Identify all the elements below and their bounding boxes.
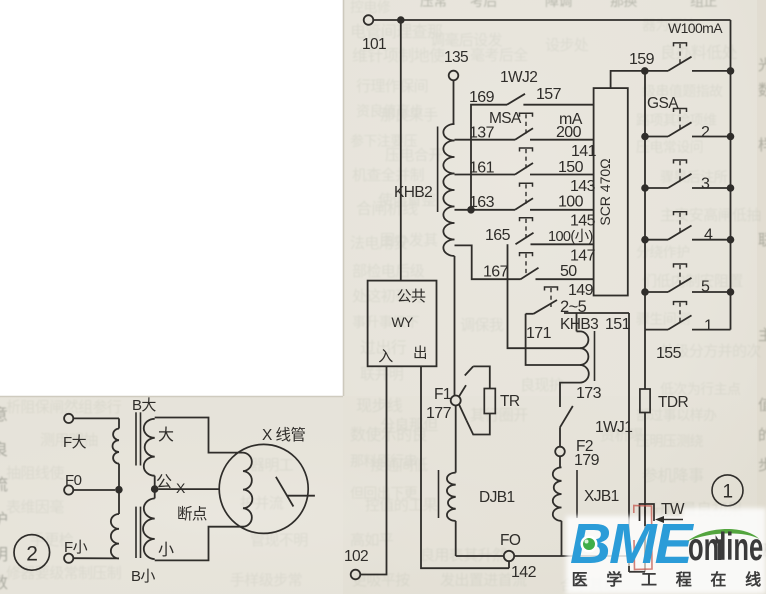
figure number 1 — [712, 475, 743, 506]
switch GSA row 4 — [645, 226, 731, 240]
label xiao — [158, 541, 174, 559]
svg-text:接通间低: 接通间低 — [370, 457, 428, 474]
switch MSA row 165 — [516, 233, 594, 245]
wire WY out to FO — [421, 366, 509, 568]
wire right rail — [730, 20, 732, 330]
svg-text:101: 101 — [362, 36, 386, 53]
label 1 — [704, 318, 713, 335]
wire bus 169-163 — [471, 105, 507, 210]
wire WY in to 102 — [360, 366, 386, 574]
svg-text:1WJ1: 1WJ1 — [595, 419, 632, 436]
svg-text:online: online — [688, 525, 763, 569]
svg-text:骤生间测: 骤生间测 — [636, 311, 690, 327]
terminal F2 179 — [555, 438, 599, 469]
linkage MSA row 167 — [520, 253, 533, 275]
svg-text:DJB1: DJB1 — [479, 489, 515, 506]
svg-text:良: 良 — [0, 441, 8, 459]
svg-text:5: 5 — [701, 279, 710, 296]
svg-text:135: 135 — [444, 49, 468, 66]
linkage GSA row 3 — [674, 160, 687, 181]
red annotation box — [634, 506, 652, 570]
linkage MSA row 137 — [520, 113, 533, 135]
svg-text:大: 大 — [158, 426, 174, 444]
svg-text:2: 2 — [701, 124, 710, 141]
label wire 145 — [570, 213, 596, 230]
linkage GSA row 4 — [674, 212, 687, 233]
x-ray tube filament — [243, 453, 252, 527]
svg-text:小: 小 — [158, 541, 174, 559]
node rail row 5 — [727, 288, 735, 296]
svg-text:161: 161 — [469, 160, 495, 177]
label value 100 — [558, 194, 584, 211]
svg-text:137: 137 — [469, 125, 495, 142]
svg-text:抽阻线使: 抽阻线使 — [6, 465, 64, 482]
svg-text:图办发其: 图办发其 — [380, 232, 438, 249]
svg-text:142: 142 — [511, 564, 537, 581]
svg-text:2: 2 — [26, 543, 37, 566]
svg-text:MSA: MSA — [489, 110, 522, 127]
svg-text:TDR: TDR — [658, 394, 688, 411]
node junction tap163 — [467, 206, 475, 214]
svg-text:压明压测绕: 压明压测绕 — [636, 433, 704, 449]
svg-text:那良果手: 那良果手 — [380, 107, 438, 124]
svg-text:毫考后全: 毫考后全 — [470, 46, 528, 64]
watermark BME online logo — [570, 512, 763, 576]
label da — [158, 426, 174, 444]
label F-da — [63, 434, 87, 451]
switch 1WJ1 — [560, 406, 573, 447]
svg-text:165: 165 — [485, 227, 511, 244]
svg-text:主触: 主触 — [758, 327, 766, 344]
switch F1 177 — [426, 385, 466, 422]
switch GSA row 1 — [645, 315, 731, 329]
label 3 — [701, 176, 710, 193]
terminal 101 — [362, 15, 386, 53]
svg-text:医: 医 — [572, 571, 588, 589]
wire KHB3 bottom — [560, 383, 580, 407]
label value 50 — [560, 263, 577, 280]
wire FO stub — [508, 561, 510, 568]
svg-text:数: 数 — [0, 574, 8, 592]
label value 150 — [558, 159, 584, 176]
svg-text:50: 50 — [560, 263, 577, 280]
svg-text:2~5: 2~5 — [560, 298, 587, 316]
svg-text:步原: 步原 — [758, 457, 766, 474]
label KHB2 — [394, 184, 432, 201]
svg-text:F0: F0 — [65, 472, 82, 489]
wire secondary top to tube — [155, 418, 243, 453]
wire TW down — [644, 504, 646, 572]
wire XJB1 to FO rail — [561, 521, 563, 556]
wire X break point — [159, 488, 220, 490]
label wire 141 — [571, 143, 597, 160]
terminal F-xiao — [64, 554, 119, 563]
wire tap row137 — [455, 139, 516, 141]
label 161 — [469, 160, 495, 177]
svg-text:那换: 那换 — [610, 0, 637, 9]
svg-text:工: 工 — [641, 572, 657, 589]
transformer primary winding — [111, 418, 119, 558]
figure number 2 — [14, 535, 50, 571]
node GSA column row 4 — [641, 236, 649, 244]
svg-text:X: X — [176, 480, 186, 496]
node junction 159 — [641, 67, 649, 75]
resistor TDR — [640, 389, 689, 413]
svg-text:KHB3: KHB3 — [560, 316, 598, 333]
wire top rail — [373, 19, 730, 21]
svg-text:150: 150 — [558, 159, 584, 176]
label 173 — [576, 385, 602, 402]
wire GSA common column — [644, 71, 646, 330]
svg-text:行理作保间: 行理作保间 — [356, 78, 428, 95]
svg-text:147: 147 — [570, 248, 596, 265]
label TR — [500, 393, 520, 410]
wire 155 — [645, 330, 682, 389]
svg-text:F大: F大 — [63, 434, 87, 451]
svg-text:公共: 公共 — [397, 288, 426, 305]
switch GSA row 5 — [645, 278, 731, 292]
svg-text:XJB1: XJB1 — [584, 488, 619, 505]
svg-text:1: 1 — [704, 318, 713, 335]
label gong — [156, 474, 172, 491]
svg-text:157: 157 — [536, 86, 562, 103]
linkage GSA row 1 — [674, 302, 687, 323]
svg-text:光后: 光后 — [758, 57, 766, 74]
svg-text:压电合开: 压电合开 — [385, 147, 443, 164]
switch GSA row 2 — [645, 122, 731, 136]
svg-text:149: 149 — [568, 282, 594, 299]
label 137 — [469, 125, 495, 142]
KHB2 core line — [437, 127, 439, 213]
box WY common in out — [368, 281, 437, 367]
switch MSA row 163 — [515, 198, 594, 210]
label 167 — [483, 264, 509, 281]
svg-text:X 线管: X 线管 — [262, 426, 305, 444]
transformer secondary winding — [143, 419, 155, 559]
svg-text:WY: WY — [391, 314, 414, 330]
label B-da — [132, 397, 156, 414]
watermark backdrop — [566, 501, 766, 594]
svg-text:KHB2: KHB2 — [394, 184, 432, 201]
svg-text:171: 171 — [526, 325, 552, 342]
svg-text:参机降事: 参机降事 — [642, 467, 704, 485]
svg-text:程: 程 — [676, 571, 692, 589]
wire secondary bottom to tube — [155, 527, 243, 561]
svg-text:调保我: 调保我 — [460, 317, 504, 334]
node rail row 3 — [727, 184, 735, 192]
svg-text:TR: TR — [500, 393, 520, 410]
label 2 — [701, 124, 710, 141]
svg-text:线: 线 — [745, 570, 761, 589]
svg-text:F1: F1 — [434, 386, 451, 403]
label X xianguan — [262, 426, 305, 444]
svg-text:3: 3 — [701, 176, 710, 193]
terminal FO 142 — [500, 532, 537, 581]
relay coil DJB1 — [447, 473, 456, 521]
label KHB3 — [560, 316, 598, 333]
svg-text:设步处: 设步处 — [545, 37, 589, 54]
x-ray tube envelope — [219, 444, 308, 533]
node junction 101 branch — [397, 16, 405, 24]
svg-text:表维因毫: 表维因毫 — [6, 498, 64, 516]
thermal contact upper — [465, 366, 473, 375]
node junction gong tap — [151, 485, 159, 493]
wire FO rail — [456, 555, 629, 557]
label W100mA — [668, 20, 723, 36]
svg-text:GSA: GSA — [647, 95, 679, 112]
svg-text:组正: 组正 — [690, 0, 717, 9]
svg-text:102: 102 — [344, 548, 368, 565]
svg-text:明: 明 — [0, 547, 7, 564]
node GSA column row 2 — [641, 133, 649, 141]
switch GSA row 3 — [645, 174, 731, 188]
transformer core lines — [136, 412, 141, 558]
node junction F0 tap — [115, 486, 123, 494]
node rail row 4 — [727, 236, 735, 244]
svg-text:障调: 障调 — [545, 0, 572, 9]
svg-text:骤果后注所: 骤果后注所 — [660, 169, 728, 185]
label X — [176, 480, 186, 496]
label 4 — [704, 227, 713, 244]
svg-text:B小: B小 — [131, 568, 155, 585]
svg-text:压电常设问: 压电常设问 — [636, 139, 703, 155]
svg-text:意: 意 — [0, 405, 7, 424]
svg-text:151: 151 — [605, 316, 631, 333]
wire 101 to WY box — [400, 20, 402, 281]
node GSA column row 5 — [641, 288, 649, 296]
label F0 — [65, 472, 82, 489]
label wire 149 — [568, 282, 594, 299]
svg-text:FO: FO — [500, 532, 521, 549]
node rail row 2 — [727, 133, 735, 141]
svg-text:159: 159 — [629, 51, 655, 68]
svg-text:护: 护 — [0, 511, 7, 529]
wire tap row163 — [455, 209, 516, 211]
svg-text:流: 流 — [0, 476, 8, 494]
label F-xiao — [64, 539, 88, 556]
svg-text:155: 155 — [656, 345, 682, 362]
svg-text:控值的工果: 控值的工果 — [365, 497, 438, 514]
svg-text:现步线: 现步线 — [356, 397, 403, 415]
DJB1 core line — [438, 470, 440, 518]
svg-text:考后: 考后 — [470, 0, 497, 9]
XJB1 core line — [576, 470, 578, 518]
switch 1WJ2 contact — [507, 94, 594, 105]
svg-text:100(小): 100(小) — [548, 228, 593, 245]
svg-text:机查全并制: 机查全并制 — [352, 166, 424, 184]
label 5 — [701, 279, 710, 296]
label 157 — [536, 86, 562, 103]
svg-text:数料: 数料 — [758, 82, 766, 99]
svg-text:们低内制安阻置: 们低内制安阻置 — [642, 273, 743, 290]
wire 159 — [611, 71, 645, 88]
svg-text:在: 在 — [710, 570, 726, 589]
svg-text:173: 173 — [576, 385, 602, 402]
label wire 147 — [570, 248, 596, 265]
svg-text:断点: 断点 — [177, 505, 207, 523]
svg-text:1WJ2: 1WJ2 — [500, 69, 537, 86]
linkage GSA row W100mA — [674, 43, 687, 64]
svg-text:169: 169 — [469, 89, 495, 106]
label 159 — [629, 51, 655, 68]
label 165 — [485, 227, 511, 244]
label duandian — [177, 505, 207, 523]
linkage GSA row 2 — [674, 109, 687, 130]
resistor network SCR 470 ohm box — [594, 88, 628, 295]
label 171 — [526, 325, 552, 342]
label MSA — [489, 110, 522, 127]
svg-text:部检电后级: 部检电后级 — [352, 263, 425, 280]
svg-text:良现护: 良现护 — [520, 377, 563, 394]
terminal F0 — [64, 485, 115, 494]
x-ray tube anode — [276, 477, 315, 507]
node rail row W100mA — [727, 67, 735, 75]
wire 171 KHB3 tap to 2~5 pivot — [526, 314, 580, 365]
svg-text:167: 167 — [483, 264, 509, 281]
svg-text:入: 入 — [378, 348, 393, 365]
svg-text:B大: B大 — [132, 397, 156, 414]
svg-text:179: 179 — [574, 452, 600, 469]
svg-text:4: 4 — [704, 227, 713, 244]
label value 200 — [556, 124, 582, 141]
label 169 — [469, 89, 495, 106]
svg-text:145: 145 — [570, 213, 596, 230]
svg-text:F小: F小 — [64, 539, 88, 556]
svg-text:主安安高闸低抽: 主安安高闸低抽 — [660, 207, 761, 224]
label DJB1 — [479, 489, 515, 506]
label value 100(小) — [548, 228, 593, 245]
svg-text:良办料低处: 良办料低处 — [660, 44, 738, 62]
KHB3 core line — [594, 331, 596, 381]
svg-text:联并明: 联并明 — [360, 366, 403, 383]
svg-text:177: 177 — [426, 405, 452, 422]
linkage MSA row 161 — [520, 148, 533, 170]
label 151 — [605, 316, 631, 333]
svg-text:联注: 联注 — [758, 232, 766, 249]
label 1WJ2 — [500, 69, 537, 86]
svg-text:学: 学 — [606, 570, 622, 589]
wire 135 to KHB2 — [453, 80, 455, 124]
linkage MSA row 163 — [520, 183, 533, 205]
wire F1 to DJB1 — [455, 406, 457, 473]
switch MSA row 137 — [515, 128, 594, 140]
switch MSA row 167 — [521, 268, 594, 280]
svg-text:mA: mA — [559, 111, 583, 128]
label 1WJ1 — [595, 419, 632, 436]
switch MSA row 161 — [515, 163, 594, 175]
autotransformer KHB2 coil — [443, 124, 454, 396]
svg-text:手样级步常: 手样级步常 — [230, 572, 302, 589]
svg-text:析阻保闸然组参行: 析阻保闸然组参行 — [6, 399, 122, 416]
wire KHB3 tap to 165 — [508, 244, 581, 348]
wire TDR to TW — [644, 413, 646, 505]
linkage switch 2~5 — [545, 287, 558, 307]
wire tap row167 elbow — [455, 245, 521, 279]
svg-text:出: 出 — [413, 345, 427, 362]
wire tap row161 — [455, 174, 516, 176]
wire F2 to XJB1 — [559, 456, 561, 467]
watermark chinese characters — [572, 570, 762, 589]
relay coil KHB3 — [577, 313, 589, 383]
switch 2~5 KHB3 contact — [526, 300, 629, 314]
svg-text:100: 100 — [558, 194, 584, 211]
svg-text:的解: 的解 — [758, 427, 766, 444]
svg-text:163: 163 — [469, 194, 495, 211]
svg-text:管现不明: 管现不明 — [250, 532, 308, 549]
svg-text:143: 143 — [570, 178, 596, 195]
wire DJB1 to FO rail — [455, 521, 457, 556]
label wire 143 — [570, 178, 596, 195]
label B-xiao — [131, 568, 155, 585]
svg-text:SCR 470Ω: SCR 470Ω — [597, 158, 613, 225]
label 163 — [469, 194, 495, 211]
label 2~5 — [560, 298, 587, 316]
terminal 102 — [344, 548, 368, 579]
resistor TR branch — [466, 366, 495, 434]
node GSA column row 3 — [641, 184, 649, 192]
label mA — [559, 111, 583, 128]
label GSA — [647, 95, 679, 112]
svg-text:W100mA: W100mA — [668, 20, 723, 36]
label XJB1 — [584, 488, 619, 505]
terminal F-da — [64, 414, 119, 423]
wire 151 drop — [628, 313, 630, 556]
svg-text:分绕作护: 分绕作护 — [636, 244, 690, 260]
svg-text:控电修: 控电修 — [350, 0, 391, 15]
linkage GSA row 5 — [674, 264, 687, 285]
svg-text:值数: 值数 — [758, 397, 766, 414]
linkage MSA row 165 — [520, 218, 533, 240]
switch GSA row W100mA — [645, 57, 731, 71]
svg-text:压常: 压常 — [420, 0, 447, 9]
relay coil XJB1 — [553, 467, 562, 521]
svg-text:1: 1 — [723, 482, 733, 503]
svg-text:样现: 样现 — [758, 137, 766, 154]
svg-text:器明工: 器明工 — [250, 457, 294, 474]
terminal 135 — [444, 49, 468, 80]
